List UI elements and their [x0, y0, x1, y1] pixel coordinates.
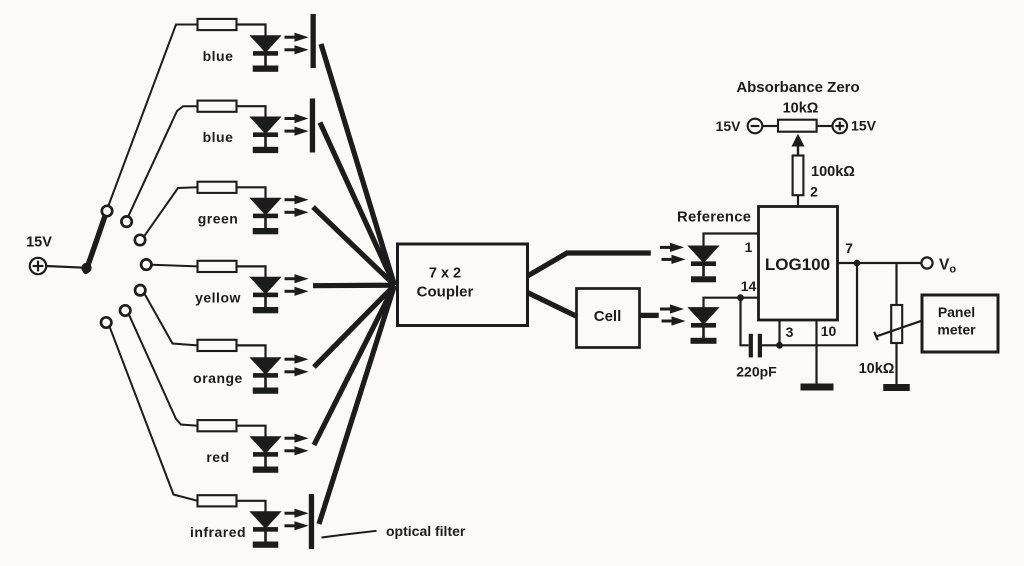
fiber wire channel 4 to coupler	[313, 283, 395, 289]
potentiometer P1 10k body	[778, 120, 817, 132]
wire wiper to R8	[797, 144, 799, 156]
svg-text:1: 1	[745, 239, 753, 255]
fiber wire channel 1 to coupler	[321, 44, 395, 285]
resistor R3 (green channel)	[198, 182, 237, 193]
wire LOG100 pin 10 to ground	[815, 320, 817, 384]
svg-text:green: green	[198, 210, 239, 226]
fiber wire channel 3 to coupler	[313, 207, 395, 285]
svg-text:10kΩ: 10kΩ	[783, 101, 819, 117]
wire PD1 anode to LOG100 pin 1	[704, 234, 759, 248]
LED D6 light emission arrows	[285, 434, 309, 456]
LED D5 light emission arrows	[285, 355, 309, 377]
node junction pin 14	[737, 294, 744, 301]
LED D2 (blue)	[251, 117, 281, 147]
optical filter bar	[309, 494, 314, 549]
switch contact 3	[135, 235, 145, 245]
LED D7 (infrared)	[251, 512, 281, 542]
wire R1 to LED D1	[237, 25, 266, 36]
capacitor C1 220pF	[749, 334, 762, 358]
wire P1 right to +15V terminal	[817, 125, 833, 127]
fiber wire coupler output to cell	[528, 293, 578, 317]
resistor R1 (blue channel)	[198, 19, 237, 30]
LED D1 (blue)	[251, 36, 281, 66]
wire LOG100 pin 7 to Vo	[838, 262, 922, 264]
ground	[253, 147, 279, 153]
svg-text:7 x 2: 7 x 2	[429, 266, 461, 282]
resistor R4 (yellow channel)	[198, 261, 237, 272]
svg-text:optical filter: optical filter	[386, 523, 466, 539]
label pointer line optical filter	[322, 531, 377, 538]
node junction pin 3	[776, 342, 783, 349]
ground	[253, 228, 279, 234]
fiber wire channel 5 to coupler	[314, 285, 395, 367]
ground	[691, 338, 717, 344]
wire switch contact 6 to R6	[129, 315, 197, 426]
LED D1 light emission arrows	[285, 33, 309, 55]
svg-text:2: 2	[810, 184, 818, 200]
svg-text:14: 14	[741, 278, 757, 294]
wire P1 left to -15V terminal	[762, 125, 778, 127]
optical filter bar	[311, 14, 316, 68]
svg-text:blue: blue	[203, 129, 234, 145]
LED D6 (red)	[251, 437, 281, 467]
wire switch contact 7 to R7	[110, 327, 198, 501]
cell box	[577, 289, 640, 348]
terminal +15V	[833, 119, 848, 134]
svg-text:orange: orange	[193, 370, 243, 386]
ground	[253, 388, 279, 394]
wire R3 to LED D3	[237, 187, 266, 198]
svg-text:Panel: Panel	[938, 304, 975, 320]
svg-text:15V: 15V	[716, 118, 742, 134]
wire switch contact 5 to R5	[145, 294, 198, 345]
switch contact 6	[120, 305, 130, 315]
LED D7 light emission arrows	[285, 509, 309, 531]
LED D2 light emission arrows	[285, 114, 309, 136]
svg-text:3: 3	[786, 324, 794, 340]
svg-text:220pF: 220pF	[736, 364, 777, 380]
potentiometer P1 wiper arrow	[792, 134, 805, 147]
wire R6 to LED D6	[237, 426, 266, 437]
wire R5 to LED D5	[237, 345, 266, 357]
svg-text:yellow: yellow	[195, 289, 241, 305]
svg-text:Cell: Cell	[594, 308, 622, 325]
ground	[253, 66, 279, 72]
wire switch contact 4 to R4	[152, 265, 198, 267]
svg-text:meter: meter	[937, 322, 976, 338]
optical filter bar	[310, 99, 315, 153]
LED D5 (orange)	[251, 358, 281, 388]
fiber wire channel 7 to coupler	[319, 285, 395, 524]
wire capacitor to pin 7 node	[762, 263, 857, 345]
wire R7 to LED D7	[237, 501, 266, 512]
svg-text:blue: blue	[203, 48, 234, 64]
svg-text:LOG100: LOG100	[765, 255, 830, 274]
photodiode PD1 reference light arrows	[660, 243, 686, 264]
fiber wire channel 6 to coupler	[314, 285, 395, 445]
switch contact 1	[102, 206, 112, 216]
LED D3 light emission arrows	[285, 195, 309, 217]
svg-text:Absorbance Zero: Absorbance Zero	[736, 79, 859, 96]
svg-text:red: red	[206, 449, 229, 465]
svg-text:10kΩ: 10kΩ	[859, 361, 895, 377]
LED D4 (yellow)	[251, 277, 281, 307]
node junction pin 7 feedback	[854, 260, 861, 267]
ground	[883, 384, 910, 391]
wire 15V to switch pivot	[46, 266, 86, 268]
wire LOG100 pin 3	[778, 320, 780, 345]
resistor R6 (red channel)	[198, 420, 237, 431]
photodiode PD1 (reference)	[689, 246, 719, 276]
wire Vo node to potentiometer P2	[895, 263, 897, 305]
switch contact 7	[101, 317, 111, 327]
potentiometer P2 10k body	[891, 305, 902, 343]
ground	[253, 542, 279, 548]
fiber wire cell to measuring photodiode	[640, 313, 659, 318]
ground	[801, 384, 834, 391]
wire switch contact 3 to R3	[144, 187, 197, 236]
svg-text:10: 10	[821, 323, 837, 339]
photodiode PD2 measuring light arrows	[660, 304, 686, 325]
svg-text:100kΩ: 100kΩ	[811, 164, 855, 180]
photodiode PD2 (measuring)	[689, 308, 719, 338]
fiber wire channel 2 to coupler	[320, 123, 395, 286]
terminal -15V	[748, 119, 763, 134]
LED D4 light emission arrows	[285, 274, 309, 296]
op-amp U2 LOG100 box	[759, 207, 838, 321]
wire P2 bottom to ground	[895, 343, 897, 384]
15V source positive terminal	[30, 258, 46, 274]
switch SW1 lever	[86, 216, 105, 272]
LED D3 (green)	[251, 198, 281, 228]
ground	[253, 307, 279, 313]
resistor R7 (infrared channel)	[198, 495, 237, 506]
wire R8 to LOG100 pin 2	[797, 195, 799, 206]
svg-text:Reference: Reference	[677, 210, 751, 226]
resistor R5 (orange channel)	[198, 340, 237, 351]
wire R2 to LED D2	[237, 106, 266, 117]
switch SW1 pivot junction	[81, 263, 91, 273]
coupler U1 box "7 x 2 Coupler"	[398, 244, 528, 326]
wire R4 to LED D4	[237, 266, 266, 277]
wire switch contact 2 to R2	[128, 106, 197, 216]
ground	[691, 276, 716, 282]
terminal Vo	[921, 257, 932, 268]
switch contact 5	[135, 285, 145, 295]
svg-text:15V: 15V	[851, 118, 877, 134]
resistor R2 (blue channel)	[198, 101, 237, 112]
wire pin 14 node down to capacitor	[741, 298, 749, 346]
svg-text:7: 7	[845, 240, 853, 256]
fiber wire coupler output to reference photodiode	[528, 253, 651, 276]
wire switch contact 1 to R1	[109, 25, 198, 206]
switch contact 4	[141, 259, 151, 269]
svg-text:Coupler: Coupler	[417, 284, 474, 301]
svg-text:15V: 15V	[26, 235, 52, 251]
switch contact 2	[121, 216, 131, 226]
svg-text:infrared: infrared	[190, 524, 246, 540]
panel meter box	[922, 295, 998, 352]
resistor R8 100k	[793, 156, 804, 196]
ground	[253, 467, 279, 473]
wire PD2 anode to LOG100 pin 14	[704, 298, 759, 309]
potentiometer P2 wiper to panel meter	[876, 321, 922, 337]
